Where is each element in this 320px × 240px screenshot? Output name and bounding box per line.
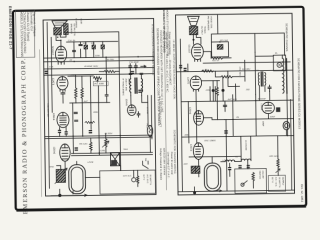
wire faint margin line	[40, 50, 42, 197]
arrow loop lead	[51, 194, 87, 197]
dial lamp in power box	[132, 178, 136, 182]
junction	[73, 61, 74, 62]
wire R16 leads	[203, 51, 231, 58]
svg-text:12BA6: 12BA6	[53, 146, 56, 154]
label text power box lines	[142, 174, 152, 185]
svg-text:12BE6: 12BE6	[52, 113, 55, 121]
svg-text:Oct. 12, 1953: Oct. 12, 1953	[300, 184, 304, 202]
pilot lamp box right	[273, 55, 285, 71]
label text scattered left	[48, 17, 150, 178]
svg-text:PM SPEAKER: PM SPEAKER	[207, 16, 210, 31]
junction	[60, 40, 61, 41]
junction	[137, 56, 138, 57]
wire drop d	[73, 42, 75, 58]
resistor R10 vertical	[104, 134, 107, 153]
wire av bus y103	[70, 101, 110, 104]
resistor R23	[277, 159, 280, 167]
wire drop e	[102, 42, 104, 58]
electrolytic C27 dark	[276, 107, 280, 112]
svg-text:220K: 220K	[95, 54, 101, 57]
outer page frame (scan border)	[13, 7, 306, 210]
wire choke L7 leads	[221, 161, 242, 176]
line plug box SW/plug	[110, 153, 119, 166]
junction	[118, 56, 119, 57]
junction	[105, 57, 106, 58]
resistor R9	[90, 138, 93, 153]
wire vert x148	[147, 95, 149, 125]
divider: left panel caption column	[151, 8, 305, 205]
arrow volume wiper	[97, 80, 99, 82]
T1 primary coil	[130, 79, 131, 93]
wire R5 leads	[75, 75, 77, 103]
svg-text:117 V.: 117 V.	[142, 174, 145, 180]
schematic panel border left	[43, 18, 156, 196]
label text acdc lines	[271, 177, 284, 188]
capacitor C4	[74, 112, 77, 113]
wire tube V5 to osc coil	[57, 161, 66, 169]
svg-text:C9 250: C9 250	[146, 107, 149, 115]
IF transformer T4 core	[260, 72, 262, 86]
tube V3 12AT6	[57, 76, 68, 91]
power box right	[235, 169, 267, 194]
svg-text:12AT6: 12AT6	[186, 77, 189, 85]
label text power right	[258, 171, 264, 180]
label text IF block	[121, 78, 130, 96]
bus wire y74.8	[44, 74, 154, 76]
antenna-oscillator coil L4	[282, 58, 284, 93]
loop antenna L1 outer	[69, 165, 86, 194]
loop antenna L1 inner	[71, 167, 83, 191]
junction	[232, 119, 233, 120]
svg-text:20MF: 20MF	[262, 121, 265, 127]
junction	[57, 37, 58, 38]
svg-text:R21 150: R21 150	[220, 39, 229, 42]
electrolytic capacitor C16	[134, 64, 137, 74]
resistor R24	[252, 172, 255, 188]
svg-text:OSC: OSC	[50, 166, 55, 169]
svg-text:OSC SECT.: OSC SECT.	[238, 67, 241, 78]
svg-text:C14 .05: C14 .05	[68, 39, 76, 42]
pilot lamp PL1	[147, 125, 153, 136]
capacitor C21	[73, 50, 76, 51]
capacitor C6 dark	[131, 71, 134, 74]
oscillator coil L5	[191, 166, 200, 173]
resistor R8 wavy	[85, 121, 95, 123]
capacitor C32 dark	[228, 167, 231, 170]
power boundary box	[100, 170, 156, 194]
bus wire y62.4	[203, 62, 290, 63]
tube V4 50L6GT	[55, 46, 66, 64]
capacitor C22 dark	[212, 89, 215, 92]
resistor R7 zigzag	[99, 70, 119, 72]
svg-text:PILOT: PILOT	[145, 124, 148, 131]
wire grid bus y76.2	[68, 75, 93, 77]
svg-text:with 1000 ohm voltmeter: with 1000 ohm voltmeter	[162, 148, 165, 175]
svg-text:30 WATTS: 30 WATTS	[149, 174, 152, 185]
svg-text:6.8M: 6.8M	[100, 149, 105, 152]
resistor R6	[81, 88, 84, 98]
wire vert x72.9	[72, 103, 75, 153]
junction	[99, 152, 100, 153]
arrow R23 tap	[276, 169, 280, 173]
bus wire y61.5	[44, 60, 154, 62]
label text misc values	[244, 121, 265, 151]
svg-text:VOL 500K: VOL 500K	[94, 82, 105, 85]
wire vert x142	[142, 95, 148, 102]
svg-text:Voltage measured to chassis: Voltage measured to chassis	[159, 148, 162, 181]
svg-text:AVC BUS: AVC BUS	[228, 98, 238, 101]
svg-text:117 V.: 117 V.	[271, 177, 274, 183]
electrolytic capacitor C15	[129, 64, 132, 74]
junction	[72, 136, 73, 137]
arrow B+	[141, 65, 146, 67]
svg-text:.0001: .0001	[93, 111, 99, 114]
IF transformer T4 primary	[258, 73, 259, 86]
svg-text:A.C.- D.C.: A.C.- D.C.	[274, 177, 277, 187]
wire left rail	[47, 22, 49, 188]
speaker field coil winding	[64, 24, 69, 35]
bus wire y136.2	[45, 135, 152, 137]
capacitor C30 dark pair	[179, 65, 186, 71]
on-off switch SW1	[143, 161, 149, 169]
junction	[120, 135, 121, 136]
model info box	[16, 10, 35, 58]
resistor R18	[216, 81, 219, 120]
wire coupling corner	[228, 71, 240, 87]
capacitor C13 below tube	[58, 130, 61, 133]
divider rule line	[164, 25, 166, 190]
svg-text:OSC 12BE6: OSC 12BE6	[204, 139, 216, 142]
resistor R16 zigzag	[211, 57, 223, 59]
svg-text:C15 40MF: C15 40MF	[129, 61, 139, 64]
label box ac dc	[268, 175, 285, 191]
svg-text:SWITCH: SWITCH	[258, 171, 261, 180]
svg-text:SUPPLY: SUPPLY	[281, 177, 284, 186]
svg-text:30 WATTS: 30 WATTS	[278, 177, 281, 188]
svg-text:AVC: AVC	[84, 100, 89, 103]
resistor R5	[75, 88, 78, 98]
tube V10 12BA6 right	[194, 110, 204, 125]
T1 trimmer capacitor top2	[140, 73, 143, 74]
capacitor C28 dark	[238, 165, 241, 168]
svg-text:ON-OFF: ON-OFF	[261, 171, 264, 180]
svg-text:SW: SW	[144, 158, 147, 161]
capacitor C18 electrolytic	[45, 71, 48, 74]
tube V6 12BE6	[193, 143, 203, 160]
capacitor C9	[137, 112, 140, 117]
pilot lamp PL2	[277, 62, 282, 67]
capacitor C25	[223, 101, 226, 111]
loop antenna L3 inner	[207, 165, 219, 188]
resistor R22 zigzag	[202, 70, 214, 72]
T1 secondary coil	[141, 79, 142, 93]
wire right mesh	[176, 38, 295, 192]
svg-text:470K: 470K	[206, 89, 212, 92]
label text scattered right	[182, 38, 280, 166]
bus wire y153.4	[71, 152, 152, 153]
capacitor C12 dark	[75, 147, 78, 150]
svg-text:R23 1400: R23 1400	[270, 155, 280, 158]
ground	[59, 189, 61, 194]
wire speaker to tube	[56, 35, 61, 46]
wire drop c	[93, 42, 95, 58]
label box volume	[93, 81, 108, 86]
svg-text:2ND I.F. 455: 2ND I.F. 455	[125, 78, 128, 91]
resistor R21	[217, 45, 223, 50]
resistor R13	[92, 45, 96, 49]
svg-text:A.C.-D.C.: A.C.-D.C.	[146, 174, 149, 184]
svg-text:12AV6: 12AV6	[125, 99, 128, 107]
bus wire y138.2	[45, 137, 152, 139]
svg-text:R22 1K: R22 1K	[212, 59, 220, 62]
capacitor C20	[79, 44, 82, 45]
resistor R14	[101, 45, 105, 49]
svg-text:BLUE: BLUE	[80, 19, 83, 25]
svg-text:.05 200V: .05 200V	[104, 132, 113, 135]
wire drop b	[85, 42, 87, 58]
tube V1 12BE6	[57, 112, 69, 127]
svg-text:470K: 470K	[70, 74, 76, 77]
capacitor C3	[61, 90, 65, 103]
wire transformer to tube	[193, 35, 201, 45]
T1 trimmer capacitor top1	[129, 73, 132, 74]
wire caps leads	[59, 127, 66, 136]
junction	[226, 136, 227, 137]
IF transformer T4 secondary	[265, 73, 266, 86]
resistor R22b zigzag	[215, 60, 245, 81]
svg-text:TRANS: TRANS	[203, 26, 206, 34]
wire B+ from output transformer	[65, 32, 119, 58]
coil L4 core	[285, 59, 287, 93]
arrow loop lead right	[214, 190, 222, 192]
wire rail2	[51, 37, 52, 112]
arrow osc adjust	[55, 168, 68, 184]
wire B+ loop outer	[211, 14, 284, 56]
svg-text:SCHEMATIC CHASSIS: SCHEMATIC CHASSIS	[285, 23, 288, 51]
capacitor C14 below tube	[65, 131, 68, 134]
capacitor C29 dark	[247, 165, 250, 168]
svg-text:Alignment, Voltages: Alignment, Voltages	[32, 11, 36, 37]
bus wire right y70.6	[176, 70, 292, 72]
svg-text:LOOP: LOOP	[88, 161, 94, 164]
svg-text:250MMF: 250MMF	[258, 97, 267, 100]
svg-text:LOOP: LOOP	[223, 159, 229, 162]
svg-text:EMERSON PAGE 21-7: EMERSON PAGE 21-7	[8, 6, 13, 50]
tube socket spiral	[283, 121, 290, 129]
wire R6 leads	[81, 76, 83, 103]
wire plate bus	[67, 40, 118, 43]
IF transformer T1	[129, 73, 143, 95]
capacitor C31 dark left edge	[224, 130, 227, 133]
capacitor C23 dark	[221, 89, 224, 92]
capacitor C10	[105, 73, 108, 103]
tube V9 50L6GT	[191, 44, 203, 62]
resistor R12	[84, 45, 88, 49]
svg-text:ALL RESISTORS 1/2 WATT: ALL RESISTORS 1/2 WATT	[158, 96, 161, 128]
wire L4 area	[255, 52, 283, 95]
svg-text:Power 30 watts total: Power 30 watts total	[170, 152, 173, 175]
wire vert x82.5	[81, 103, 83, 136]
speaker SP1 cone	[52, 21, 67, 28]
capacitor C5	[75, 120, 78, 121]
junction	[82, 135, 83, 136]
wire speaker secondary	[60, 35, 66, 38]
filter choke L6	[241, 159, 251, 161]
T1 core	[134, 78, 136, 93]
plug dark blob	[111, 160, 117, 165]
svg-text:OUTPUT: OUTPUT	[200, 26, 203, 36]
svg-text:B+ 100V: B+ 100V	[242, 68, 251, 71]
wire vert x98.8	[97, 86, 100, 155]
capacitor C24	[268, 85, 271, 91]
schematic panel border right	[176, 13, 295, 195]
svg-text:VOICE COIL: VOICE COIL	[210, 16, 213, 29]
svg-text:IF TRANS 455KC: IF TRANS 455KC	[121, 78, 124, 96]
junction	[219, 41, 220, 42]
junction	[192, 39, 194, 41]
tube V5 12BA6	[60, 144, 71, 161]
wire cap leads	[213, 77, 223, 101]
wire drop a	[80, 42, 82, 58]
wire loop antenna leads	[73, 161, 78, 194]
bus wire y155.6	[71, 155, 152, 156]
speaker SP2 cone	[188, 16, 200, 25]
junction	[255, 100, 256, 101]
tube V2 12AV6	[127, 105, 136, 116]
wire B+ loop inner	[212, 42, 229, 57]
wire vert x91	[89, 76, 92, 129]
svg-text:L6 CHOKE: L6 CHOKE	[244, 140, 247, 151]
oscillator coil L2	[56, 169, 65, 182]
svg-text:Line voltage 117 V. A.C.: Line voltage 117 V. A.C.	[167, 152, 170, 179]
svg-text:12AV6: 12AV6	[260, 103, 263, 110]
wire vert x151.7	[150, 95, 153, 138]
tube V7 12AV6	[262, 102, 275, 114]
wire vert x120 low	[119, 57, 121, 170]
svg-text:ALIGN: ALIGN	[128, 78, 131, 85]
output transformer T6	[189, 26, 197, 34]
filter choke L7	[225, 160, 235, 162]
wire vert x131	[130, 96, 132, 105]
wire T1 leads	[131, 75, 142, 96]
bus wire y80	[201, 80, 219, 82]
bus wire y58	[44, 57, 154, 59]
svg-text:B+ 95V: B+ 95V	[107, 58, 115, 61]
junction	[287, 135, 288, 136]
loop antenna L3 outer	[204, 163, 221, 191]
wire V10 plate	[188, 101, 241, 157]
output transformer T3	[54, 28, 62, 35]
svg-text:.0001: .0001	[184, 134, 190, 137]
wire bottom runs	[85, 136, 151, 178]
volume control R4 zigzag	[93, 77, 101, 80]
resistor R11	[137, 176, 139, 187]
arrow R10 wiper	[102, 141, 109, 147]
on-off switch SW2	[241, 183, 244, 186]
capacitor C11 dark	[89, 130, 92, 133]
svg-text:50L6GT: 50L6GT	[187, 45, 190, 54]
wire vert x107	[105, 57, 107, 73]
bus wire y68.5	[44, 67, 154, 69]
svg-text:B GREEN: B GREEN	[75, 18, 78, 28]
capacitor C7 dark	[138, 90, 142, 93]
svg-text:20MF: 20MF	[270, 116, 276, 119]
svg-text:40-50MF 150V: 40-50MF 150V	[84, 65, 98, 68]
svg-text:12BE6: 12BE6	[189, 144, 192, 152]
ground right	[194, 187, 196, 192]
svg-text:117V A.C.: 117V A.C.	[123, 175, 133, 178]
tube V8 12AT6	[190, 76, 202, 91]
svg-text:R9 2.2M: R9 2.2M	[79, 142, 87, 145]
